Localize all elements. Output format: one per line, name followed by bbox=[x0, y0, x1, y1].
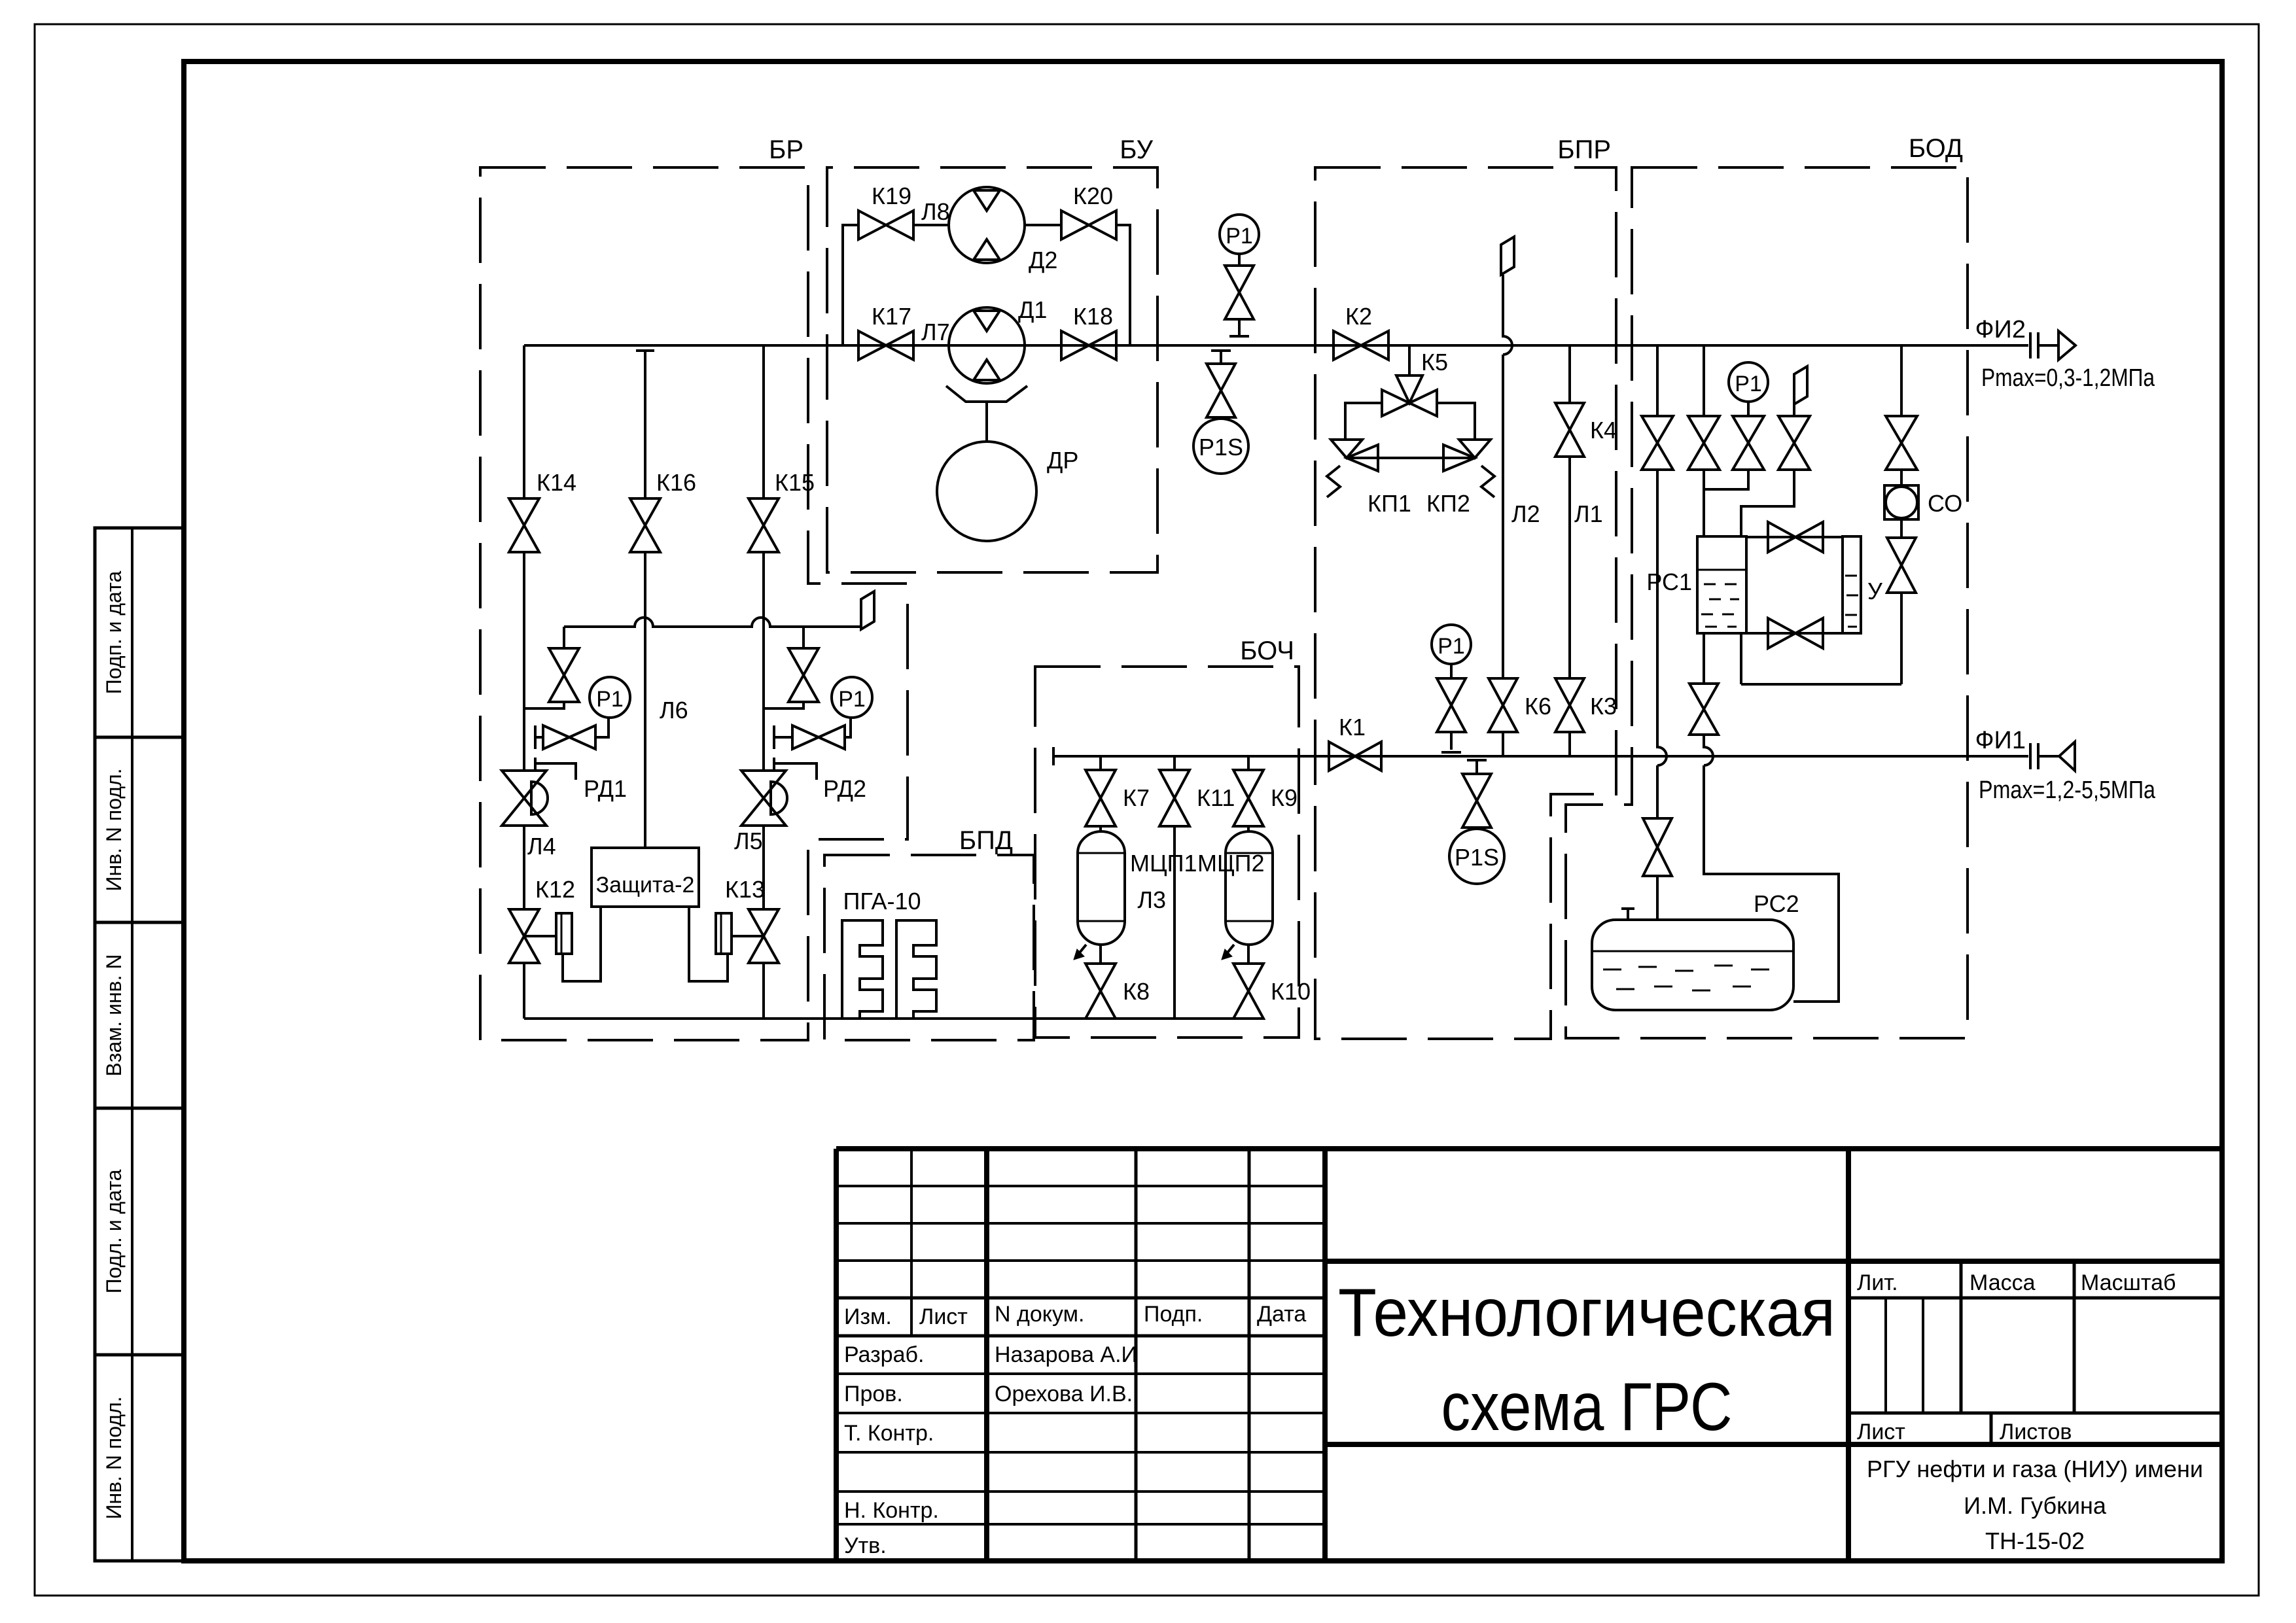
wire left bypass valve to К14 line bbox=[524, 703, 564, 708]
РС1 liquid dashes bbox=[1701, 584, 1739, 627]
Масштаб col line bbox=[2073, 1261, 2076, 1413]
device СО circle bbox=[1886, 487, 1917, 518]
svg-text:БОД: БОД bbox=[1909, 134, 1963, 163]
valve over P1S bbox=[1207, 364, 1235, 417]
wire СО to valve bbox=[1900, 519, 1903, 538]
svg-text:Д1: Д1 bbox=[1018, 296, 1047, 323]
svg-text:К6: К6 bbox=[1525, 693, 1551, 720]
gauge valve cap bar РД1 bbox=[534, 725, 537, 749]
svg-text:К19: К19 bbox=[872, 183, 911, 209]
block БОЧ dashed boundary bbox=[1035, 667, 1299, 1038]
svg-text:Лист: Лист bbox=[919, 1304, 968, 1329]
svg-text:К9: К9 bbox=[1271, 784, 1298, 811]
wire СО riser bbox=[1900, 345, 1903, 416]
safety valve КП2 side triangle bbox=[1443, 445, 1475, 471]
svg-text:МЦП2: МЦП2 bbox=[1197, 850, 1265, 877]
valve К10 bbox=[1233, 964, 1263, 1019]
valve К19 bbox=[858, 211, 913, 239]
flowmeter Д2 top chevron bbox=[974, 190, 1000, 211]
wire needle valve to P1 РД2 bbox=[774, 718, 851, 737]
svg-text:ТН-15-02: ТН-15-02 bbox=[1985, 1527, 2085, 1554]
valve РС1-У bottom bbox=[1768, 618, 1823, 648]
wire ФИ1 tail bbox=[2038, 755, 2059, 758]
flowmeter Д2 circle bbox=[949, 187, 1025, 263]
Лист row top line bbox=[1848, 1412, 2222, 1415]
valve БОД line2 (РС1 feed) bbox=[1688, 416, 1720, 470]
regulator РД2 body bbox=[741, 771, 786, 826]
svg-text:Листов: Листов bbox=[2000, 1420, 2072, 1444]
svg-text:КП1: КП1 bbox=[1368, 490, 1411, 517]
lower main pipeline bbox=[1053, 755, 2028, 758]
lower main line left end cap bbox=[1052, 747, 1055, 765]
wire needle valve to P1 РД1 bbox=[535, 718, 609, 737]
vent flag БОД bbox=[1794, 366, 1807, 404]
valve К17 bbox=[858, 331, 913, 360]
Масса col line bbox=[1960, 1261, 1963, 1413]
valve К14 bbox=[509, 498, 539, 552]
valve РС1 drain bbox=[1689, 684, 1718, 735]
svg-text:Масса: Масса bbox=[1969, 1270, 2036, 1295]
wire РС1 feed bbox=[1703, 470, 1705, 536]
wire РС1-У bottom link bbox=[1746, 632, 1843, 635]
svg-text:Орехова И.В.: Орехова И.В. bbox=[995, 1382, 1133, 1406]
РС1 liquid line bbox=[1697, 569, 1746, 571]
svg-text:БПР: БПР bbox=[1557, 135, 1611, 164]
valve К4 bbox=[1555, 403, 1584, 457]
Лит subcol line 2 bbox=[1922, 1298, 1924, 1413]
wire P1 to valve bbox=[1238, 254, 1241, 266]
svg-text:схема ГРС: схема ГРС bbox=[1441, 1369, 1733, 1445]
svg-text:К3: К3 bbox=[1590, 693, 1617, 720]
valve К8 bbox=[1086, 964, 1116, 1019]
svg-text:Лист: Лист bbox=[1857, 1420, 1905, 1444]
wire Л6 riser upper bbox=[644, 351, 646, 498]
title block top edge bbox=[836, 1146, 2222, 1151]
wire Д2 loop right riser bbox=[1116, 225, 1130, 345]
svg-text:N докум.: N докум. bbox=[995, 1302, 1084, 1327]
wire БОД riser 2604 bbox=[1703, 345, 1705, 416]
Защита-2 left leg bbox=[563, 907, 601, 981]
svg-text:СО: СО bbox=[1928, 490, 1962, 517]
svg-text:Инв. N подл.: Инв. N подл. bbox=[102, 768, 126, 891]
svg-text:К7: К7 bbox=[1123, 784, 1150, 811]
svg-text:Н. Контр.: Н. Контр. bbox=[844, 1498, 939, 1523]
regulator РД2 impulse bracket bbox=[774, 758, 817, 780]
Защита-2 left column inner line bbox=[561, 913, 563, 954]
wire БОД bottom collector bbox=[1741, 683, 1901, 686]
title block row line y2220 bbox=[836, 1451, 1325, 1454]
wire vent branch join bbox=[1741, 470, 1794, 536]
flowmeter Д2 bottom chevron bbox=[974, 239, 1000, 260]
wire К15 to РД2 bbox=[762, 553, 765, 771]
block БУ dashed boundary bbox=[827, 167, 1157, 572]
svg-text:Изм.: Изм. bbox=[844, 1304, 892, 1329]
gauge P1S upper bbox=[1193, 419, 1248, 474]
title block row line y2330 bbox=[836, 1523, 1325, 1526]
svg-text:К8: К8 bbox=[1123, 978, 1150, 1005]
gauge needle valve РД1 bbox=[543, 725, 595, 749]
svg-text:К18: К18 bbox=[1073, 303, 1113, 330]
svg-text:РС2: РС2 bbox=[1754, 890, 1799, 917]
svg-text:ПГА-10: ПГА-10 bbox=[843, 888, 921, 915]
svg-text:Взам. инв. N: Взам. инв. N bbox=[102, 954, 126, 1076]
wire ФИ2 tail bbox=[2038, 344, 2058, 347]
title block row line y2042 bbox=[836, 1335, 1325, 1338]
wire Л1 bbox=[1568, 457, 1571, 678]
gauge P1 of РД2 bbox=[832, 677, 872, 718]
wire РС1 bottom to collector bbox=[1740, 633, 1742, 684]
gauge valve cap bar РД2 bbox=[773, 725, 775, 749]
valve over P1S БПР bbox=[1462, 774, 1491, 828]
regulator РД2 actuator dome bbox=[771, 782, 787, 814]
svg-text:К1: К1 bbox=[1339, 714, 1366, 741]
throttle ДР circle bbox=[937, 442, 1036, 541]
gauge P1 of РД1 bbox=[590, 677, 630, 718]
upper main pipeline bbox=[524, 344, 2028, 347]
valve БОД P1 line bbox=[1733, 416, 1764, 470]
regulator РД1 impulse bracket bbox=[535, 758, 576, 780]
svg-text:К5: К5 bbox=[1421, 349, 1448, 375]
wire К11 stub bbox=[1173, 756, 1176, 770]
svg-text:Разраб.: Разраб. bbox=[844, 1342, 924, 1367]
svg-text:P1S: P1S bbox=[1455, 844, 1499, 871]
wire Л2 upper with hop bbox=[1503, 275, 1512, 678]
wire Л6 riser lower bbox=[644, 553, 646, 848]
valve К16 bbox=[630, 498, 660, 552]
svg-text:РС1: РС1 bbox=[1646, 568, 1692, 595]
spring КП2 bbox=[1481, 466, 1494, 497]
gauge P1 upper bbox=[1220, 215, 1259, 254]
valve К5 body bbox=[1382, 390, 1437, 416]
ФИ1 double tick bbox=[2030, 743, 2038, 769]
spring КП1 bbox=[1327, 466, 1340, 497]
valve К11 bbox=[1159, 770, 1190, 826]
wire Л5 bbox=[762, 826, 765, 909]
wire Д2 to К20 bbox=[1025, 224, 1061, 226]
svg-text:И.М. Губкина: И.М. Губкина bbox=[1964, 1492, 2107, 1519]
level gauge У glass bbox=[1843, 536, 1861, 633]
svg-text:ДР: ДР bbox=[1047, 447, 1078, 474]
vessel РС1 bbox=[1697, 536, 1746, 633]
valve К15 bbox=[749, 498, 779, 552]
cap bar over P1S valve bbox=[1211, 349, 1231, 352]
svg-text:БР: БР bbox=[769, 135, 804, 164]
title block col line x2825 bbox=[1846, 1149, 1851, 1561]
wire valve to cap bbox=[1238, 319, 1241, 335]
wire right column to К13 bbox=[732, 935, 764, 937]
valve СО upper bbox=[1886, 416, 1917, 470]
valve К5 top triangle bbox=[1396, 375, 1422, 403]
wire Л3 bbox=[1173, 826, 1176, 1019]
Защита-2 left column bbox=[556, 913, 572, 954]
vessel МЦП2 bbox=[1226, 831, 1273, 945]
wire РС1 drain upper bbox=[1703, 633, 1705, 684]
valve БОД vent line bbox=[1778, 416, 1810, 470]
left strip row line 3 bbox=[95, 1107, 184, 1110]
svg-text:Подп.: Подп. bbox=[1144, 1302, 1203, 1327]
heater ПГА coil left bbox=[842, 920, 883, 1019]
wire К7 stub bbox=[1099, 756, 1102, 770]
svg-text:КП2: КП2 bbox=[1426, 490, 1470, 517]
block БПД dashed boundary bbox=[824, 855, 1034, 1040]
safety valve КП2 top triangle bbox=[1459, 440, 1491, 458]
left strip outline bbox=[95, 528, 184, 1561]
vessel МЦП1 top weld line bbox=[1078, 852, 1125, 854]
svg-text:Л5: Л5 bbox=[734, 828, 763, 854]
tank РС2 bbox=[1592, 920, 1793, 1010]
cap bar P1 БПР bbox=[1441, 751, 1461, 754]
svg-text:Л3: Л3 bbox=[1137, 886, 1166, 913]
svg-text:Инв. N подл.: Инв. N подл. bbox=[102, 1396, 126, 1519]
wire СО down bbox=[1900, 593, 1903, 684]
heater ПГА coil right bbox=[896, 920, 936, 1019]
wire ДР stem bbox=[985, 402, 988, 442]
gauge needle valve РД2 bbox=[792, 725, 845, 749]
svg-text:P1: P1 bbox=[1735, 372, 1762, 396]
throttle ДР mouth bbox=[946, 386, 1027, 402]
Лист/Листов divider bbox=[1990, 1413, 1993, 1444]
svg-text:Л4: Л4 bbox=[527, 833, 556, 860]
valve left bypass bbox=[549, 648, 579, 702]
svg-text:ФИ2: ФИ2 bbox=[1975, 316, 2026, 343]
safety valve КП1 top triangle bbox=[1331, 440, 1362, 458]
svg-text:МЦП1: МЦП1 bbox=[1130, 850, 1197, 877]
gauge P1S БПР bbox=[1449, 829, 1504, 884]
svg-text:Pmax=0,3-1,2МПа: Pmax=0,3-1,2МПа bbox=[1981, 364, 2155, 392]
svg-text:Л8: Л8 bbox=[921, 198, 950, 225]
valve К2 bbox=[1333, 331, 1388, 360]
valve under P1 БПР bbox=[1437, 678, 1466, 732]
wire P1 БОД stem bbox=[1747, 402, 1750, 416]
left strip middle column line bbox=[131, 528, 133, 1561]
title block row line y1927 bbox=[836, 1259, 1325, 1262]
svg-text:Л6: Л6 bbox=[660, 697, 688, 724]
У liquid dashes bbox=[1845, 576, 1858, 627]
valve К13 bbox=[749, 909, 779, 963]
wire left bypass valve stub top bbox=[563, 627, 565, 648]
regulator РД1 actuator dome bbox=[531, 782, 548, 814]
wire К15 riser upper bbox=[762, 345, 765, 498]
wire right bypass valve to К15 line bbox=[764, 703, 804, 708]
svg-text:P1: P1 bbox=[1438, 634, 1465, 659]
vent flag Л2 bbox=[1501, 237, 1514, 275]
wire РС2 inlet lower bbox=[1656, 876, 1659, 920]
wire СО stub bbox=[1900, 470, 1903, 485]
wire К3 to lower main bbox=[1568, 732, 1571, 756]
wire right bypass valve stub top bbox=[802, 627, 805, 648]
МЦП1 drain arrow bbox=[1077, 945, 1086, 956]
wire cap to P1S valve БПР bbox=[1475, 760, 1478, 774]
svg-text:РГУ нефти и газа (НИУ) имени: РГУ нефти и газа (НИУ) имени bbox=[1867, 1456, 2203, 1482]
wire РС1 drain lower with hop bbox=[1704, 735, 1839, 1002]
flowmeter Д1 circle bbox=[949, 307, 1025, 383]
valve К9 bbox=[1233, 770, 1263, 826]
Лит subcol line 1 bbox=[1884, 1298, 1887, 1413]
svg-text:К11: К11 bbox=[1197, 784, 1235, 811]
left strip row line 1 bbox=[95, 736, 184, 739]
device Защита-2 box bbox=[592, 848, 699, 907]
svg-text:Масштаб: Масштаб bbox=[2081, 1270, 2176, 1295]
Защита-2 right column bbox=[716, 913, 732, 954]
regulator РД1 body bbox=[502, 771, 546, 826]
cap bar P1S БПР bbox=[1467, 759, 1487, 761]
wire Л4 bbox=[523, 826, 525, 909]
svg-text:Т. Контр.: Т. Контр. bbox=[844, 1421, 934, 1446]
svg-text:Утв.: Утв. bbox=[844, 1533, 887, 1558]
РС2 liquid line bbox=[1592, 951, 1793, 952]
title block row divider x1393 (Изм/Лист) bbox=[910, 1149, 913, 1336]
wire cap to P1S valve bbox=[1220, 351, 1222, 364]
svg-text:P1S: P1S bbox=[1199, 434, 1243, 461]
svg-text:Дата: Дата bbox=[1257, 1302, 1306, 1327]
flowmeter Д1 bottom chevron bbox=[974, 360, 1000, 380]
wire Л6 riser cap bar bbox=[636, 349, 654, 352]
svg-text:Л7: Л7 bbox=[921, 319, 950, 345]
wire К5 left drop bbox=[1345, 403, 1382, 440]
title block row line y1813 bbox=[836, 1185, 1325, 1187]
ФИ2 arrow bbox=[2058, 331, 2075, 360]
cap bar under P1 valve bbox=[1229, 335, 1249, 338]
svg-text:К16: К16 bbox=[656, 469, 696, 496]
wire К9 stub bbox=[1247, 756, 1250, 770]
valve К1 bbox=[1329, 742, 1381, 771]
wire К5 right drop bbox=[1437, 403, 1475, 440]
svg-text:У: У bbox=[1867, 578, 1883, 604]
block БР dashed boundary bbox=[480, 167, 908, 1040]
wire БОД riser 2533 bbox=[1656, 345, 1659, 416]
svg-text:Подп. и дата: Подп. и дата bbox=[102, 571, 126, 695]
wire Л1 riser bbox=[1568, 345, 1571, 403]
vessel МЦП1 bbox=[1078, 831, 1125, 945]
wire Д2 loop left riser bbox=[843, 225, 858, 345]
svg-text:К14: К14 bbox=[537, 469, 576, 496]
svg-text:Назарова А.И: Назарова А.И bbox=[995, 1342, 1137, 1367]
svg-text:Л2: Л2 bbox=[1511, 500, 1540, 527]
svg-text:P1: P1 bbox=[838, 687, 866, 712]
device СО box bbox=[1884, 485, 1918, 519]
svg-text:P1: P1 bbox=[596, 687, 624, 712]
valve К7 bbox=[1086, 770, 1116, 826]
svg-text:РД2: РД2 bbox=[823, 775, 866, 802]
valve К18 bbox=[1061, 331, 1116, 360]
svg-text:РД1: РД1 bbox=[584, 775, 627, 802]
valve under P1 bbox=[1225, 266, 1254, 319]
valve К6 bbox=[1489, 678, 1517, 732]
wire P1 branch join bbox=[1704, 470, 1748, 489]
title block col line x1736 bbox=[1135, 1149, 1138, 1561]
МЦП2 drain arrow bbox=[1225, 945, 1234, 956]
wire К5 branch bbox=[1408, 345, 1411, 375]
wire К6 to lower main bbox=[1502, 732, 1504, 756]
gauge P1 БОД bbox=[1729, 362, 1768, 402]
vent header pipe bbox=[564, 618, 861, 627]
svg-text:Лит.: Лит. bbox=[1857, 1270, 1898, 1295]
block БПР dashed boundary bbox=[1315, 167, 1616, 1039]
wire МЦП2 to К10 bbox=[1247, 945, 1250, 964]
valve РС1-У top bbox=[1768, 522, 1823, 552]
svg-text:Технологическая: Технологическая bbox=[1338, 1275, 1835, 1351]
svg-text:К12: К12 bbox=[535, 876, 575, 903]
svg-text:К4: К4 bbox=[1590, 417, 1617, 444]
vessel МЦП1 bottom weld line bbox=[1078, 920, 1125, 922]
wire P1 БПР stem bbox=[1450, 664, 1453, 678]
left strip row line 2 bbox=[95, 921, 184, 924]
svg-text:К20: К20 bbox=[1073, 183, 1113, 209]
valve К12 bbox=[509, 909, 539, 963]
wire flag to valve БОД bbox=[1793, 404, 1795, 416]
svg-text:Защита-2: Защита-2 bbox=[596, 873, 695, 898]
valve К20 bbox=[1061, 211, 1116, 239]
Защита-2 right leg bbox=[689, 907, 728, 981]
wire КП1-КП2 link bbox=[1347, 457, 1475, 459]
svg-text:К10: К10 bbox=[1271, 978, 1311, 1005]
title block row line y1870 bbox=[836, 1222, 1325, 1225]
wire К14 to РД1 bbox=[523, 553, 525, 771]
svg-text:Подл. и дата: Подл. и дата bbox=[102, 1169, 126, 1293]
valve right bypass bbox=[788, 648, 819, 702]
Лит header bottom line bbox=[1848, 1297, 2222, 1300]
ФИ1 arrow bbox=[2059, 742, 2075, 771]
РС2 top tick bbox=[1621, 909, 1634, 920]
title cell top line bbox=[1325, 1259, 2222, 1264]
wire РС2 feed upper bbox=[1657, 470, 1667, 818]
bottom collector pipe bbox=[524, 1017, 1248, 1020]
wire К13 bottom bbox=[762, 964, 765, 1019]
wire К12 bottom bbox=[523, 964, 525, 1019]
svg-text:БОЧ: БОЧ bbox=[1240, 637, 1294, 665]
wire К14 riser upper bbox=[523, 345, 525, 498]
svg-text:Пров.: Пров. bbox=[844, 1382, 903, 1406]
title block left edge bbox=[834, 1149, 839, 1561]
valve РС2 inlet bbox=[1643, 818, 1672, 876]
svg-text:К13: К13 bbox=[725, 876, 765, 903]
wire РС1-У top link bbox=[1746, 536, 1843, 538]
title block row line y2280 bbox=[836, 1490, 1325, 1493]
gauge P1 БПР bbox=[1432, 625, 1471, 664]
title block col line x1508 bbox=[984, 1149, 989, 1561]
valve БОД line1 bbox=[1642, 416, 1673, 470]
wire К19 to Д2 bbox=[913, 224, 949, 226]
svg-text:Pmax=1,2-5,5МПа: Pmax=1,2-5,5МПа bbox=[1979, 777, 2156, 804]
safety valve КП1 side triangle bbox=[1347, 445, 1378, 471]
title block row line y2100 bbox=[836, 1372, 1325, 1375]
title block row line y1984 bbox=[836, 1297, 1325, 1300]
svg-text:К15: К15 bbox=[775, 469, 815, 496]
svg-text:К2: К2 bbox=[1345, 303, 1372, 330]
wire valve to cap БПР bbox=[1450, 732, 1453, 750]
title block row line y2160 bbox=[836, 1412, 1325, 1414]
title block col line x1909 bbox=[1248, 1149, 1251, 1561]
vessel МЦП2 top weld line bbox=[1226, 852, 1273, 854]
block БОД dashed boundary bbox=[1566, 167, 1968, 1038]
РС2 liquid dashes bbox=[1603, 966, 1769, 990]
wire К7 to МЦП1 bbox=[1099, 826, 1102, 831]
valve СО lower bbox=[1887, 538, 1916, 593]
svg-text:БУ: БУ bbox=[1120, 135, 1153, 164]
svg-text:ФИ1: ФИ1 bbox=[1975, 727, 2026, 754]
left strip row line 4 bbox=[95, 1353, 184, 1357]
valve К3 bbox=[1555, 678, 1584, 732]
wire МЦП1 to К8 bbox=[1099, 945, 1102, 964]
title block col line x2025 bbox=[1322, 1149, 1328, 1561]
Защита-2 right column inner line bbox=[720, 913, 722, 954]
svg-text:P1: P1 bbox=[1226, 224, 1253, 249]
vent flag свеча bbox=[861, 591, 874, 629]
flowmeter Д1 top chevron bbox=[974, 311, 1000, 331]
svg-text:Д2: Д2 bbox=[1029, 247, 1057, 273]
svg-text:Л1: Л1 bbox=[1574, 500, 1603, 527]
svg-text:К17: К17 bbox=[872, 303, 911, 330]
